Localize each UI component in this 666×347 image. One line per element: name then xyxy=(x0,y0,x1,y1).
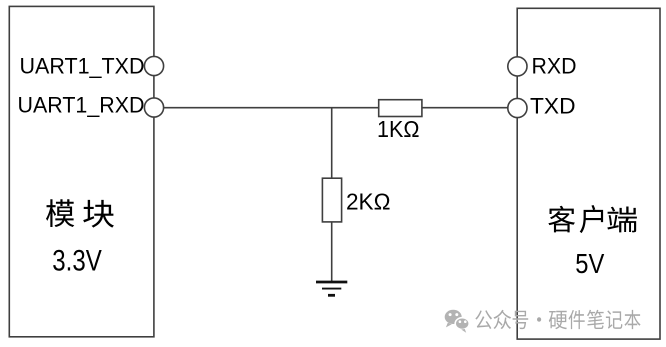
pin RXD xyxy=(508,57,527,76)
svg-text:1KΩ: 1KΩ xyxy=(377,116,420,142)
ground xyxy=(316,282,347,295)
svg-text:5V: 5V xyxy=(575,248,604,279)
text 模块 (module) xyxy=(46,199,114,227)
watermark logo (wechat bubbles) xyxy=(445,310,470,333)
svg-text:UART1_RXD: UART1_RXD xyxy=(18,93,145,118)
text 客户端 (client) xyxy=(548,205,637,233)
svg-text:RXD: RXD xyxy=(532,53,577,78)
wire junction to R2 (pull-down) xyxy=(331,108,333,179)
svg-text:2KΩ: 2KΩ xyxy=(346,189,391,215)
resistor R2 2KΩ xyxy=(322,178,341,222)
module box U1 (3.3V module) xyxy=(9,6,154,336)
pin TXD xyxy=(508,98,527,117)
wire R1 to TXD xyxy=(422,107,517,109)
wire R2 to ground xyxy=(331,222,333,281)
wire UART1_RXD to R1 xyxy=(154,107,379,109)
resistor R1 1KΩ xyxy=(379,100,422,117)
svg-text:3.3V: 3.3V xyxy=(52,245,102,278)
svg-text:TXD: TXD xyxy=(530,94,576,119)
watermark text 公众号·硬件笔记本 xyxy=(475,310,640,329)
pin UART1_TXD xyxy=(144,56,163,75)
client box U2 (5V client) xyxy=(517,8,660,339)
pin UART1_RXD xyxy=(144,98,163,117)
svg-text:UART1_TXD: UART1_TXD xyxy=(20,53,145,78)
